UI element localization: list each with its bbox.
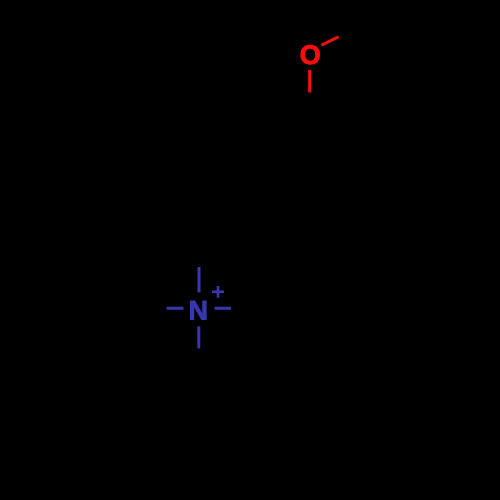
bond N-CH3 right (blue half) <box>215 307 232 310</box>
svg-text:O: O <box>300 40 321 70</box>
bond N-C up (blue half) <box>198 267 201 293</box>
svg-text:N: N <box>188 295 208 325</box>
bond N-CH3 down (blue half) <box>197 327 200 349</box>
bond O-CH3 (red half, diagonal up-right) <box>322 37 339 45</box>
bond N-CH3 left (blue half) <box>167 307 184 310</box>
charge + on N <box>212 286 224 298</box>
bond O-C ring (red half, vertical down) <box>308 70 311 93</box>
